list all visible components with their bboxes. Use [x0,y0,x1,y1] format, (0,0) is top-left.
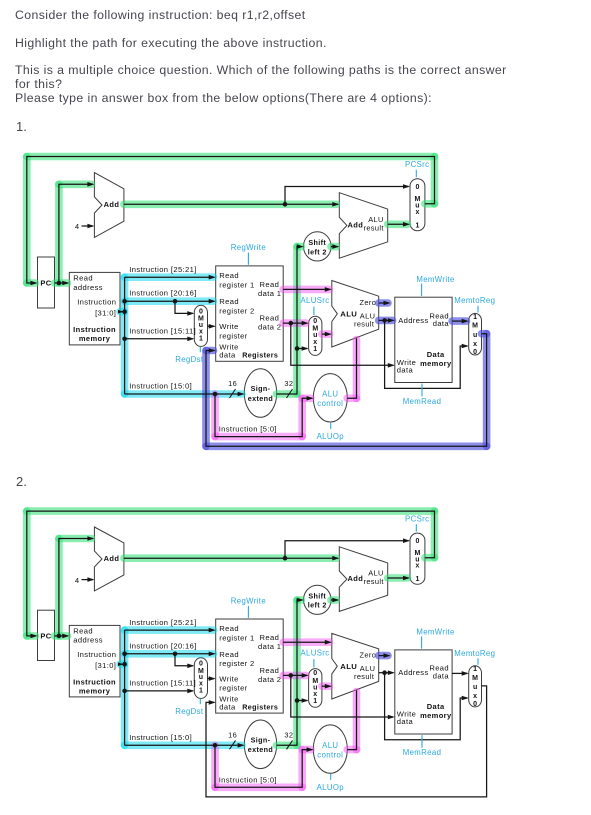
wire: RegDst mux output to write register (option 1) [208,325,215,327]
svg-text:4: 4 [75,576,80,585]
svg-text:PC: PC [40,279,51,288]
highlight magenta: read data 1 to ALU (option 2) [283,638,329,646]
svg-text:1: 1 [313,346,317,353]
svg-text:0: 0 [473,701,477,708]
wire: read data 2 down to data memory write data (option 2) [291,675,394,717]
highlight cyan: instruction [15:0] to sign-extend (option 2) [125,741,242,749]
svg-text:Read: Read [219,271,239,280]
svg-text:Registers: Registers [242,351,278,360]
wire: sign-extend output to shift-left-2 (option 2) [277,600,303,745]
svg-text:PCSrc: PCSrc [405,515,429,524]
wire: PC up to PC+4 adder (option 1) [59,184,93,283]
svg-text:Add: Add [104,554,120,563]
wire: instruction [25:21] to read register 1 (option 2) [125,629,215,631]
svg-text:data: data [219,351,236,360]
svg-text:register: register [219,684,247,693]
svg-text:Instruction [20:16]: Instruction [20:16] [129,289,196,298]
svg-text:result: result [364,224,384,233]
wire: MemtoReg mux output writeback to registers write data (option 2) [206,686,487,797]
wire: instruction [31:0] from memory to bus (option 2) [120,663,123,665]
shift left 2 unit (option 2) [304,585,332,614]
svg-text:Instruction [25:21]: Instruction [25:21] [129,618,196,627]
wire: ALU result around memory to MemtoReg mux input 0 (option 2) [385,673,468,740]
bus width slash 16 (option 2) [230,740,236,749]
wire: shift-left-2 to branch adder (option 1) [331,246,338,248]
wire: instruction bus vertical (option 1) [124,277,126,394]
svg-text:u: u [473,684,477,691]
highlight magenta: ALU control to ALU operation input (option 2) [347,746,356,754]
svg-text:x: x [473,341,477,348]
wire: read data 2 to ALUSrc mux input 0 (option 1) [283,322,307,324]
main ALU (option 1) [332,281,379,348]
wire: ALU zero output (option 2) [379,655,389,657]
instruction memory (option 1) [69,272,120,345]
svg-text:0: 0 [415,538,419,545]
highlight magenta: ALUSrc mux output to ALU (option 1) [322,330,330,338]
mux PCSrc (option 2) [410,533,425,584]
wire: read data 1 to ALU input 1 (option 1) [283,288,330,290]
shift left 2 unit (option 1) [304,232,332,261]
wire: instruction [20:16] branch down to RegDst mux input 0 (option 2) [175,654,193,666]
svg-text:Shift: Shift [308,238,326,247]
wire: instruction [20:16] branch down to RegDst mux input 0 (option 1) [175,301,193,313]
svg-text:Instruction [15:11]: Instruction [15:11] [129,326,196,335]
wire: branch adder ALU result to PCSrc mux input 1 (option 2) [388,577,409,579]
mux ALUSrc (option 1) [309,316,322,355]
svg-text:Instruction [20:16]: Instruction [20:16] [129,641,196,650]
svg-text:Read: Read [219,297,239,306]
svg-text:x: x [313,691,317,698]
highlight green: PC to Add PC+4 (option 2) [55,539,63,636]
svg-text:result: result [354,672,374,681]
svg-text:1.: 1. [16,119,27,134]
highlight cyan: instruction [20:16] to read register 2 (option 1) [125,297,214,305]
svg-text:1: 1 [313,698,317,705]
svg-text:memory: memory [79,334,111,343]
wire: shift-left-2 to branch adder (option 2) [331,599,338,601]
svg-text:0: 0 [473,349,477,356]
registers file (option 2) [216,619,284,713]
data memory (option 2) [395,650,452,734]
svg-text:register: register [219,332,247,341]
svg-text:ALUOp: ALUOp [317,432,345,441]
mux MemtoReg (option 2) [469,666,482,708]
svg-text:register 1: register 1 [219,633,254,642]
highlight green: sign-extend output up to shift-left-2 (option 2) [277,741,298,749]
svg-text:MemWrite: MemWrite [416,275,454,284]
highlight green: PC to instruction memory read address (option 1) [55,279,68,287]
svg-text:Read: Read [73,627,93,636]
wire: instruction [20:16] to read register 2 (option 2) [125,653,215,655]
svg-text:data 2: data 2 [258,675,281,684]
svg-text:0: 0 [199,661,203,668]
svg-text:MemtoReg: MemtoReg [454,296,495,305]
svg-text:32: 32 [284,731,293,740]
bus width slash 32 (option 1) [287,389,293,398]
wire: sign-extend branch to ALUSrc mux input 1 (option 2) [297,700,307,702]
wire: PC+4 adder output to branch adder (option 1) [124,203,338,205]
wire: ALU result to data memory address (option 1) [379,319,394,321]
svg-text:Read: Read [260,280,280,289]
highlight green: branch adder result to PCSrc mux input 1 (option 2) [388,574,408,582]
wire: PC+4 up to PCSrc mux input 0 (option 2) [285,541,409,559]
svg-text:x: x [415,209,419,216]
svg-text:left 2: left 2 [308,601,327,610]
mux ALUSrc (option 2) [309,669,322,708]
wire: ALU result around memory to MemtoReg mux input 0 (option 1) [385,320,468,388]
wire: read data 2 to ALUSrc mux input 0 (option 2) [283,674,307,676]
svg-text:x: x [199,328,203,335]
highlight magenta: read data 2 to ALUSrc mux (option 1) [283,319,306,327]
highlight magenta: read data 1 to ALU (option 1) [283,286,329,294]
svg-text:16: 16 [228,731,237,740]
svg-text:Read: Read [219,650,239,659]
highlight magenta: instruction [5:0] to ALU control (option 1) [211,394,219,437]
wire: read data 1 to ALU input 1 (option 2) [283,641,330,643]
highlight blue: memory read data to MemtoReg mux (option 1) [452,317,466,325]
wire: memory read data to MemtoReg mux input 1 (option 1) [452,320,467,322]
wire: PC to instruction memory read address (option 1) [55,282,69,284]
highlight green: shift-left-2 to branch adder (option 2) [331,596,337,604]
adder Add (PC+4) (option 1) [94,173,124,238]
adder Add (branch target) with ALU result output (option 2) [339,547,387,612]
svg-text:16: 16 [228,379,237,388]
svg-text:extend: extend [248,745,273,754]
svg-text:Instruction: Instruction [73,325,116,334]
svg-text:ALUSrc: ALUSrc [300,649,329,658]
svg-text:PC: PC [40,632,51,641]
highlight cyan: instruction [25:21] to read register 1 (option 1) [125,273,214,281]
svg-text:Sign-: Sign- [251,735,271,744]
highlight cyan: instruction bus vertical (option 2) [121,630,129,745]
highlight green: branch adder result to PCSrc mux input 1 (option 1) [388,221,408,229]
wire: RegDst mux output to write register (option 2) [208,678,215,680]
svg-text:0: 0 [199,308,203,315]
highlight magenta: ALU control to ALU operation input (option 1) [347,394,356,402]
svg-text:1: 1 [415,222,419,229]
highlight green: PC to Add PC+4 (option 1) [55,184,63,283]
svg-text:result: result [354,320,374,329]
sign-extend unit (option 1) [244,369,276,418]
svg-text:0: 0 [313,670,317,677]
svg-text:Write: Write [219,322,238,331]
mux PCSrc (option 1) [410,179,425,231]
sign-extend unit (option 2) [244,720,276,769]
svg-text:[31:0]: [31:0] [95,309,116,318]
svg-text:Read: Read [260,666,280,675]
svg-text:Write: Write [219,674,238,683]
svg-text:Add: Add [348,221,364,230]
PC register box (option 2) [38,610,55,660]
svg-text:data 2: data 2 [258,323,281,332]
svg-text:1: 1 [415,576,419,583]
svg-text:Zero: Zero [360,651,377,660]
svg-text:Read: Read [219,624,239,633]
ALU control unit (option 2) [313,725,347,773]
highlight magenta: read data 2 to ALUSrc mux (option 2) [283,672,306,680]
svg-text:ALUSrc: ALUSrc [300,296,329,305]
svg-text:Read: Read [73,274,93,283]
svg-text:address: address [73,636,103,645]
ALU control unit (option 1) [313,374,347,422]
svg-text:left 2: left 2 [308,247,327,256]
PC register box (option 1) [38,257,55,308]
highlight green: PCSrc mux output loop back to PC (option 1) [425,200,435,208]
svg-text:Read: Read [260,633,280,642]
svg-text:Sign-: Sign- [251,384,271,393]
instruction memory (option 2) [69,625,120,697]
main ALU (option 2) [332,633,379,699]
wire: MemtoReg mux output writeback to registers write data (option 1) [206,334,487,447]
svg-text:data: data [397,717,414,726]
svg-text:Instruction: Instruction [73,677,116,686]
svg-text:data: data [433,671,450,680]
svg-text:MemtoReg: MemtoReg [454,649,495,658]
wire: instruction [15:0] to sign-extend (option 2) [125,744,244,746]
svg-text:Shift: Shift [308,591,326,600]
svg-text:x: x [313,339,317,346]
wire: memory read data to MemtoReg mux input 1 (option 2) [452,672,467,674]
highlight green: PC to instruction memory read address (option 2) [55,632,68,640]
svg-text:data: data [433,319,450,328]
svg-text:x: x [415,563,419,570]
svg-text:control: control [317,750,343,759]
wire: sign-extend branch to ALUSrc mux input 1 (option 1) [297,348,307,350]
svg-text:data: data [397,366,414,375]
highlight cyan: instruction bus from memory (option 1) [120,308,125,316]
adder Add (branch target) with ALU result output (option 1) [339,193,387,259]
svg-text:data 1: data 1 [258,642,281,651]
svg-text:result: result [364,577,384,586]
svg-text:MemRead: MemRead [403,397,442,406]
svg-text:[31:0]: [31:0] [95,661,116,670]
svg-text:u: u [473,332,477,339]
wire: PC up to PC+4 adder (option 2) [59,539,93,636]
svg-text:ALUOp: ALUOp [317,783,345,792]
svg-text:data: data [219,702,236,711]
wire: instruction [31:0] from memory to bus (option 1) [120,311,123,313]
svg-text:RegDst: RegDst [175,707,204,716]
svg-text:Instruction [5:0]: Instruction [5:0] [219,425,277,434]
mux RegDst (option 1) [194,305,207,346]
svg-text:register 1: register 1 [219,281,254,290]
highlight green: shift-left-2 to branch adder (option 1) [331,243,337,251]
wire: instruction [5:0] to ALU control (option 1) [215,394,312,437]
svg-text:2.: 2. [16,474,27,489]
svg-text:memory: memory [420,711,452,720]
svg-text:MemRead: MemRead [403,748,442,757]
wire: ALU result to data memory address (option 2) [379,672,394,674]
wire: PC+4 adder output to branch adder (option 2) [124,557,338,559]
wire: instruction [15:0] to sign-extend (option 1) [125,393,244,395]
svg-text:1: 1 [473,666,477,673]
wire: instruction [20:16] to read register 2 (option 1) [125,300,215,302]
svg-text:RegWrite: RegWrite [231,597,266,606]
svg-text:1: 1 [199,336,203,343]
mux MemtoReg (option 1) [469,313,482,356]
svg-text:address: address [73,283,103,292]
svg-text:M: M [472,675,478,682]
svg-text:Instruction: Instruction [77,298,116,307]
svg-text:1: 1 [473,314,477,321]
svg-text:memory: memory [420,359,452,368]
wire: instruction [25:21] to read register 1 (option 1) [125,276,215,278]
wire: branch adder ALU result to PCSrc mux input 1 (option 1) [388,223,409,225]
svg-text:x: x [199,681,203,688]
svg-text:0: 0 [415,184,419,191]
highlight green: PCSrc mux output loop back to PC (option 2) [425,554,435,562]
svg-text:Instruction [5:0]: Instruction [5:0] [219,776,277,785]
svg-text:control: control [317,399,343,408]
svg-text:Read: Read [260,314,280,323]
highlight blue: MemtoReg mux output writeback loop to registers write data (option 1) [482,330,487,338]
wire: ALUSrc mux output to ALU input 2 (option 1) [322,333,331,335]
wire: instruction [15:11] to RegDst mux input 1 (option 1) [125,338,193,340]
wire: ALUSrc mux output to ALU input 2 (option 2) [322,685,331,687]
svg-text:Address: Address [398,316,428,325]
wire: ALU zero output (option 1) [379,302,389,304]
wire: PCSrc mux output around top back into PC (option 1) [27,157,435,284]
highlight cyan: instruction bus from memory (option 2) [120,660,125,668]
wire: instruction [15:11] to RegDst mux input 1 (option 2) [125,690,193,692]
highlight green: sign-extend output up to shift-left-2 (option 1) [277,390,298,398]
highlight cyan: instruction [15:0] to sign-extend (option 1) [125,390,242,398]
highlight blue: ALU zero output (option 1) [379,299,388,307]
wire: PCSrc mux output around top back into PC (option 2) [27,511,435,636]
highlight magenta: ALUSrc mux output to ALU (option 2) [322,682,330,690]
svg-text:register 2: register 2 [219,307,254,316]
highlight green: PC+4 to branch adder (option 2) [124,554,337,562]
bus width slash 16 (option 1) [230,389,236,398]
wire: instruction bus vertical (option 2) [124,630,126,745]
highlight blue: ALU zero output (option 2) [379,652,388,660]
svg-text:ALU: ALU [322,741,338,750]
wire: instruction [5:0] to ALU control (option 2) [215,745,312,787]
svg-text:4: 4 [75,222,80,231]
svg-text:PCSrc: PCSrc [405,160,429,169]
wire: read data 2 down to data memory write data (option 1) [291,323,394,365]
svg-text:x: x [473,693,477,700]
highlight blue: ALU result to data memory address (option 1) [379,317,393,325]
svg-text:Add: Add [104,200,120,209]
svg-text:M: M [472,323,478,330]
svg-text:Add: Add [348,574,364,583]
svg-text:Instruction: Instruction [77,650,116,659]
wire: PC+4 up to PCSrc mux input 0 (option 1) [285,187,409,205]
svg-text:MemWrite: MemWrite [416,628,454,637]
svg-text:32: 32 [284,379,293,388]
highlight cyan: instruction bus vertical (option 1) [121,277,129,394]
svg-text:Data: Data [427,702,445,711]
svg-text:Instruction [15:0]: Instruction [15:0] [129,382,192,391]
highlight cyan: instruction [20:16] to read register 2 (option 2) [125,650,214,658]
svg-text:Data: Data [427,350,445,359]
svg-text:ALU: ALU [340,662,357,671]
highlight green: PC+4 to branch adder (option 1) [124,201,337,209]
svg-text:1: 1 [199,688,203,695]
mux RegDst (option 2) [194,658,207,699]
adder Add (PC+4) (option 2) [94,527,124,591]
svg-text:ALU: ALU [322,390,338,399]
bus width slash 32 (option 2) [287,740,293,749]
wire: ALU control output to ALU (option 2) [347,690,356,749]
highlight cyan: instruction [25:21] to read register 1 (option 2) [125,626,214,634]
svg-text:Instruction [25:21]: Instruction [25:21] [129,265,196,274]
highlight magenta: instruction [5:0] to ALU control (option 2) [211,745,219,787]
registers file (option 1) [216,266,284,361]
data memory (option 1) [395,297,452,382]
svg-text:RegDst: RegDst [175,355,204,364]
svg-text:ALU: ALU [340,310,357,319]
svg-text:data 1: data 1 [258,289,281,298]
svg-text:Zero: Zero [360,298,377,307]
svg-text:RegWrite: RegWrite [231,243,266,252]
wire: ALU control output to ALU (option 1) [347,338,356,398]
wire: PC to instruction memory read address (option 2) [55,635,69,637]
svg-text:0: 0 [313,318,317,325]
svg-text:register 2: register 2 [219,659,254,668]
svg-text:extend: extend [248,394,273,403]
svg-text:Registers: Registers [242,702,278,711]
svg-text:Instruction [15:0]: Instruction [15:0] [129,733,192,742]
svg-text:Instruction [15:11]: Instruction [15:11] [129,679,196,688]
svg-text:Address: Address [398,668,428,677]
wire: sign-extend output to shift-left-2 (option 1) [277,247,303,394]
svg-text:memory: memory [79,686,111,695]
